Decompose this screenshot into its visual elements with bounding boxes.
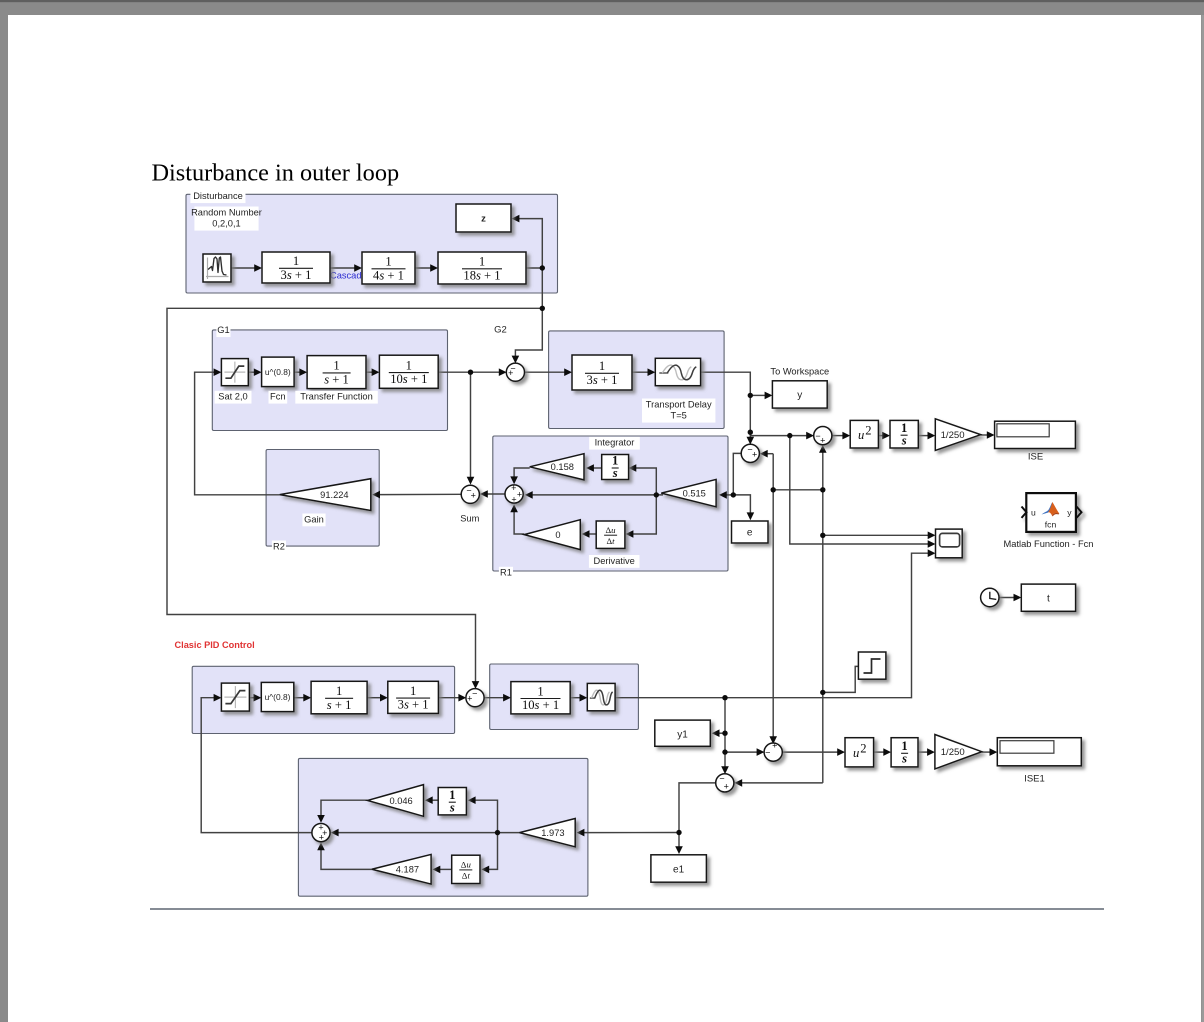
gain 0.158 (R1) — [530, 454, 584, 480]
saturation (PID) — [221, 683, 249, 711]
svg-text:Sat 2,0: Sat 2,0 — [218, 392, 247, 402]
e1 To Workspace block — [651, 855, 707, 882]
svg-text:1/250: 1/250 — [941, 430, 965, 441]
wire derivative to 0 gain — [582, 530, 597, 538]
svg-text:2: 2 — [860, 742, 866, 756]
svg-text:0: 0 — [555, 530, 560, 540]
Matlab Function fcn block — [1022, 493, 1082, 532]
fcn u^(0.8) (G1) — [262, 357, 295, 387]
wire disturbance to PID sum (outer rectangle) — [167, 308, 542, 689]
transfer function 1/(18s+1) (Disturbance) — [438, 252, 526, 284]
svg-text:Δt: Δt — [606, 536, 615, 546]
junction R1 input net — [654, 492, 659, 497]
svg-text:G1: G1 — [217, 325, 229, 335]
wire transport delay output down to sum A — [701, 372, 755, 444]
wire e junction to e block — [733, 495, 754, 520]
transfer function 1/(3s+1) (PID) — [388, 681, 439, 713]
svg-text:ISE: ISE — [1028, 451, 1043, 462]
wire step block to step net — [823, 666, 859, 692]
svg-text:−: − — [472, 688, 477, 698]
group box Disturbance — [186, 194, 558, 293]
wire derivative to 4.187 gain — [433, 866, 452, 874]
integrator 1/s (R1) — [602, 454, 629, 481]
transfer function 1/(10s+1) (PID plant) — [511, 682, 570, 714]
wire 0 gain to R1 sum bottom — [510, 504, 524, 534]
wire sum A output to e junction — [733, 453, 741, 495]
svg-text:1: 1 — [406, 358, 412, 372]
svg-text:2: 2 — [865, 423, 871, 437]
wire 1/(s+1) to 1/(3s+1) (PID) — [367, 694, 388, 702]
svg-text:s + 1: s + 1 — [327, 698, 352, 712]
svg-text:Matlab Function - Fcn: Matlab Function - Fcn — [1004, 539, 1094, 549]
wire 0.046 to sum E top — [317, 800, 367, 823]
ISE1 display block — [997, 738, 1081, 766]
wire PID net up to integrator — [468, 796, 498, 832]
svg-text:e1: e1 — [673, 865, 685, 876]
gain 0.515 (R1 input) — [661, 479, 716, 506]
svg-text:1: 1 — [293, 254, 299, 268]
wire 4.187 to sum E bottom — [317, 842, 372, 869]
transfer function 1/(3s+1) (Disturbance) — [262, 252, 330, 283]
label chip Integrator — [589, 437, 640, 450]
label chip Random Number 0,2,0,1 — [191, 207, 262, 231]
wire 0.158 to R1 sum top — [510, 468, 529, 484]
sum A (step minus y) — [741, 444, 759, 462]
wire sat to fcn (PID) — [249, 694, 261, 702]
svg-text:R2: R2 — [273, 541, 285, 551]
transport delay (PID) — [587, 683, 615, 710]
wire step net into sum A right — [760, 450, 773, 458]
gain 0 (R1 derivative) — [524, 520, 580, 550]
transport delay T=5 (G2) — [655, 358, 700, 385]
junction e1 net — [676, 830, 681, 835]
svg-text:Random Number: Random Number — [191, 207, 262, 217]
svg-text:Clasic PID Control: Clasic PID Control — [175, 640, 255, 650]
svg-text:18s + 1: 18s + 1 — [463, 268, 500, 282]
svg-text:10s + 1: 10s + 1 — [390, 372, 427, 386]
svg-text:91.224: 91.224 — [320, 490, 348, 500]
group box PID plant input chain — [192, 666, 454, 733]
svg-text:Disturbance in outer loop: Disturbance in outer loop — [152, 160, 400, 187]
wire 1/(18s+1) to junction — [526, 267, 542, 269]
svg-text:u: u — [858, 428, 864, 442]
wire cross link step nets — [773, 489, 823, 491]
wire R2 gain output to G1 saturation input — [195, 368, 280, 494]
junction y to workspace — [748, 393, 753, 398]
svg-text:s: s — [449, 800, 455, 814]
svg-text:s: s — [901, 433, 907, 447]
wire disturbance junction down — [541, 268, 543, 308]
svg-text:4s + 1: 4s + 1 — [373, 268, 404, 282]
y1 To Workspace block — [655, 720, 711, 746]
wire 1.973 output to sum E — [331, 829, 520, 837]
wire e1 junction to e1 block — [675, 833, 683, 855]
wire 1/250 to ISE1 display — [982, 748, 998, 756]
u^2 block (ISE1) — [845, 738, 874, 767]
wire step net to scope input 1 — [823, 532, 936, 540]
wire sat to fcn (G1) — [248, 368, 261, 376]
svg-text:1: 1 — [537, 684, 543, 698]
svg-text:Gain: Gain — [304, 514, 324, 524]
label chip Sat 2,0 — [215, 391, 252, 404]
wire y1 branch to y1 block — [712, 729, 725, 737]
sum F (PID error) — [466, 688, 484, 707]
label chip Sum — [460, 513, 479, 526]
clock block — [981, 588, 999, 606]
svg-text:0.046: 0.046 — [389, 796, 412, 806]
derivative du/dt (PID) — [452, 855, 480, 883]
wire y1 branch to sum C left — [725, 748, 764, 756]
u^2 block (ISE) — [850, 420, 878, 448]
svg-text:Δu: Δu — [606, 525, 617, 535]
fcn u^(0.8) (PID) — [261, 682, 294, 711]
wire R1 sum output to Sum — [480, 490, 505, 498]
svg-text:1: 1 — [333, 359, 339, 373]
label chip G1 — [216, 324, 230, 337]
svg-text:s + 1: s + 1 — [324, 373, 349, 387]
svg-text:1.973: 1.973 — [541, 828, 564, 838]
svg-text:R1: R1 — [500, 568, 512, 578]
svg-text:Disturbance: Disturbance — [193, 191, 243, 201]
wire sum B to u^2 — [832, 432, 851, 440]
wire y net to scope input 2 — [790, 436, 936, 548]
svg-text:z: z — [481, 213, 486, 224]
scope block — [936, 529, 963, 558]
wire sum D output to e1 junction — [679, 783, 716, 833]
group box PID controller — [298, 758, 588, 896]
svg-text:Derivative: Derivative — [594, 556, 635, 566]
junction step net right — [820, 487, 825, 492]
wire 1/(10s+1) to G2 sum — [438, 368, 506, 376]
svg-text:u: u — [853, 746, 859, 760]
svg-text:+: + — [724, 781, 729, 791]
group box G1 — [212, 330, 447, 431]
junction disturbance output — [540, 265, 545, 270]
svg-text:+: + — [511, 495, 516, 505]
svg-text:Integrator: Integrator — [595, 438, 635, 448]
sum B (ISE error) — [814, 427, 832, 446]
svg-text:Fcn: Fcn — [270, 392, 286, 402]
svg-text:G2: G2 — [494, 325, 507, 336]
group box R1 inner controller — [493, 436, 728, 571]
svg-text:s: s — [612, 466, 618, 480]
z To Workspace block — [456, 204, 511, 232]
wire integrator to 1/250 (ISE) — [918, 432, 935, 440]
junction y1 to sum C — [722, 749, 727, 754]
label chip R1 — [499, 567, 513, 580]
wire clock to t block — [999, 594, 1022, 602]
svg-text:1: 1 — [599, 359, 605, 373]
svg-text:Δu: Δu — [461, 860, 472, 870]
svg-text:−: − — [765, 747, 770, 757]
wire step net to sum D right — [734, 779, 822, 787]
svg-text:Δt: Δt — [462, 871, 471, 881]
wire step net vertical to sum B bottom — [819, 445, 827, 783]
svg-text:+: + — [772, 741, 777, 751]
junction disturbance to loops — [540, 306, 545, 311]
wire G2 sum to 1/(3s+1) plant — [524, 368, 572, 376]
svg-text:Sum: Sum — [460, 513, 479, 523]
group box G2 plant — [549, 331, 725, 429]
svg-text:ISE1: ISE1 — [1024, 774, 1045, 785]
svg-text:3s + 1: 3s + 1 — [587, 373, 618, 387]
integrator 1/s (ISE1) — [891, 738, 918, 767]
step source block — [858, 652, 886, 679]
svg-text:+: + — [752, 449, 757, 459]
sum C (ISE1 error) — [764, 741, 782, 762]
ISE display block — [995, 421, 1076, 448]
transfer function 1/(3s+1) (G2 plant) — [572, 355, 632, 390]
sum R1 (PID combine) — [505, 483, 523, 505]
wire disturbance to G2 sum top — [512, 308, 543, 363]
junction step source tap — [820, 690, 825, 695]
svg-text:1: 1 — [385, 255, 391, 269]
e To Workspace block — [732, 521, 769, 543]
label chip Fcn — [269, 391, 288, 404]
svg-text:+: + — [467, 693, 472, 703]
wire fcn to 1/(s+1) (PID) — [294, 694, 311, 702]
sum E (PID controller combine) — [312, 823, 330, 843]
junction step to scope 1 — [820, 533, 825, 538]
gain 91.224 (R2) — [280, 479, 371, 511]
wire integrator to 0.158 gain — [586, 464, 602, 472]
t To Workspace block — [1021, 584, 1075, 611]
wire PID net down to derivative — [481, 833, 497, 874]
random number noise source — [203, 254, 231, 282]
svg-text:s: s — [901, 752, 907, 766]
gain 1.973 (PID P) — [520, 819, 576, 847]
wire junction up to z block — [512, 215, 543, 268]
junction y to scope 2 — [787, 433, 792, 438]
wire 1/(10s+1) to delay (PID) — [570, 694, 587, 702]
svg-text:t: t — [1047, 594, 1050, 605]
svg-text:To Workspace: To Workspace — [770, 367, 829, 377]
transfer function 1/(s+1) (G1) — [307, 356, 366, 389]
svg-text:Transfer Function: Transfer Function — [300, 392, 373, 402]
wire 1/(3s+1) to PID sum — [438, 694, 466, 702]
wire PID output to scope input 3 — [615, 549, 935, 697]
wire e junction to 0.515 gain — [719, 491, 733, 499]
wire G1 output down to Sum — [467, 372, 475, 484]
sum G2 (disturbance entry) — [506, 363, 524, 381]
wire R1 net up to integrator — [629, 464, 657, 495]
wire sum C to u^2 (ISE1) — [782, 748, 845, 756]
svg-text:1: 1 — [336, 684, 342, 698]
svg-text:Transport Delay: Transport Delay — [646, 399, 712, 409]
gain 0.046 (PID I) — [368, 785, 424, 817]
wire PID sum to 1/(10s+1) — [484, 694, 511, 702]
wire Sum output to R2 gain — [372, 491, 461, 499]
y To Workspace block — [772, 381, 827, 408]
wire e1 junction to 1.973 gain — [577, 829, 679, 837]
svg-text:u^(0.8): u^(0.8) — [265, 692, 291, 702]
gain 1/250 (ISE) — [935, 419, 980, 451]
svg-text:1/250: 1/250 — [941, 747, 965, 758]
wire noise to 1/(3s+1) — [231, 264, 262, 272]
wire y branch to sum B — [750, 432, 814, 440]
junction y1 block tap — [722, 731, 727, 736]
wire 1/(4s+1) to 1/(18s+1) — [415, 264, 438, 272]
sum Sum (outer loop) — [461, 485, 479, 503]
label chip Transfer Function — [295, 391, 378, 404]
group box R2 gain — [266, 450, 379, 547]
svg-text:y: y — [797, 390, 802, 401]
junction y to sum B — [748, 430, 753, 435]
svg-text:+: + — [511, 483, 516, 493]
svg-text:T=5: T=5 — [671, 411, 687, 421]
svg-text:+: + — [471, 491, 476, 501]
transfer function 1/(10s+1) (G1) — [379, 355, 438, 388]
svg-text:3s + 1: 3s + 1 — [398, 698, 429, 712]
junction PID output — [722, 695, 727, 700]
wire R1 net down to derivative — [626, 495, 657, 538]
group box PID plant — [490, 664, 639, 730]
svg-text:1: 1 — [479, 255, 485, 269]
wire 0.515 output to R1 sum — [525, 491, 663, 499]
junction e net — [731, 492, 736, 497]
transfer function 1/(s+1) (PID) — [311, 681, 367, 714]
wire 1/250 to ISE display — [981, 431, 995, 439]
wire u^2 to integrator (ISE) — [878, 432, 890, 440]
svg-text:+: + — [517, 490, 522, 500]
integrator 1/s (ISE) — [890, 420, 918, 448]
wire y1 net down to sum D top — [721, 698, 729, 774]
label chip Gain — [302, 514, 325, 527]
label chip Disturbance group — [190, 190, 245, 203]
wire 1/(3s+1) to 1/(4s+1) — [330, 264, 362, 272]
svg-text:y1: y1 — [677, 730, 688, 741]
svg-text:0,2,0,1: 0,2,0,1 — [212, 219, 240, 229]
wire integrator to 0.046 gain — [425, 796, 438, 804]
svg-text:0.158: 0.158 — [551, 462, 574, 472]
svg-text:u^(0.8): u^(0.8) — [265, 367, 291, 377]
wire step net vertical to sum C top — [769, 454, 777, 744]
svg-text:3s + 1: 3s + 1 — [281, 268, 312, 282]
svg-text:fcn: fcn — [1045, 520, 1057, 530]
junction step net left — [771, 487, 776, 492]
svg-text:4.187: 4.187 — [396, 865, 419, 875]
sum D (e1 error) — [716, 774, 734, 792]
wire integrator to 1/250 (ISE1) — [918, 748, 935, 756]
gain 4.187 (PID D) — [372, 854, 431, 884]
svg-text:u: u — [1031, 508, 1036, 518]
derivative du/dt (R1) — [596, 521, 625, 548]
svg-text:+: + — [820, 435, 825, 445]
svg-text:+: + — [319, 832, 324, 842]
label chip R2 — [272, 541, 286, 554]
transfer function 1/(4s+1) (Disturbance) — [362, 252, 415, 284]
svg-text:0.515: 0.515 — [683, 488, 706, 498]
svg-text:Cascade: Cascade — [330, 271, 367, 281]
wire y branch to To Workspace — [750, 392, 772, 400]
integrator 1/s (PID) — [438, 788, 466, 815]
wire fcn to 1/(s+1) (G1) — [294, 368, 307, 376]
junction G1 output — [468, 370, 473, 375]
svg-text:1: 1 — [410, 684, 416, 698]
svg-text:e: e — [747, 528, 753, 539]
wire 1/(s+1) to 1/(10s+1) (G1) — [366, 368, 379, 376]
wire PID feedback to saturation — [201, 694, 312, 833]
junction PID controller net — [495, 830, 500, 835]
label chip Transport Delay T=5 — [642, 399, 715, 423]
gain 1/250 (ISE1) — [935, 735, 982, 769]
saturation Sat 2,0 (G1) — [221, 359, 248, 386]
wire u^2 to integrator (ISE1) — [874, 748, 892, 756]
separator line — [150, 908, 1104, 910]
label chip Derivative — [589, 555, 640, 568]
svg-text:10s + 1: 10s + 1 — [522, 698, 559, 712]
wire plant tf to transport delay — [632, 368, 655, 376]
svg-text:y: y — [1067, 508, 1072, 518]
svg-text:+: + — [508, 368, 513, 378]
